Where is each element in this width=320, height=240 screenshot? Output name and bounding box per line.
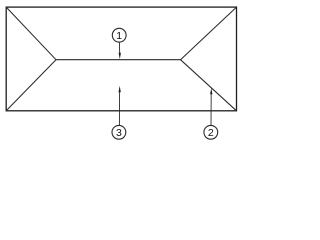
svg-text:2: 2	[208, 127, 214, 139]
hip line bottom-left	[6, 60, 56, 111]
hip line bottom-right	[181, 60, 237, 111]
ridge line	[56, 59, 181, 61]
hip line top-left	[6, 7, 56, 60]
hip line top-right	[181, 7, 237, 60]
callout 3 leader line	[118, 90, 120, 125]
callout 2 leader line	[210, 92, 212, 125]
svg-text:3: 3	[116, 127, 122, 139]
callout 1 leader line	[118, 43, 120, 56]
callout 3 arrowhead	[119, 86, 121, 92]
callout 2 circle	[204, 125, 218, 139]
svg-text:1: 1	[116, 30, 122, 42]
callout 1 arrowhead	[119, 53, 121, 59]
callout 3 circle	[112, 125, 126, 139]
roof outline rectangle	[6, 7, 236, 111]
callout 2 arrowhead	[210, 88, 212, 94]
callout 1 circle	[112, 28, 126, 42]
